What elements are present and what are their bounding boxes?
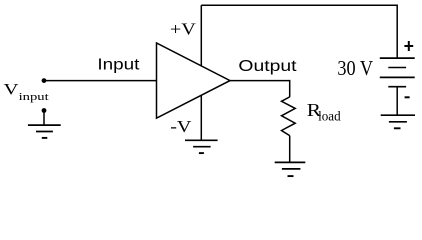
label battery + terminal — [404, 41, 413, 51]
label +V — [170, 20, 197, 38]
ground (battery negative) — [381, 115, 415, 128]
wire battery negative lead — [396, 87, 398, 116]
wire input (Vinput node to op-amp input) — [44, 80, 157, 82]
wire -V supply (op-amp bottom to ground) — [200, 95, 202, 140]
svg-text:load: load — [318, 108, 341, 123]
label Rload — [307, 102, 341, 124]
svg-text:input: input — [19, 90, 50, 103]
wire battery positive lead — [396, 5, 398, 59]
ground (below Rload) — [275, 162, 306, 176]
node Vinput return (ground terminal dot) — [42, 108, 47, 113]
svg-text:Input: Input — [97, 55, 139, 73]
wire top supply rail — [201, 4, 397, 6]
wire +V supply (vertical into op-amp top) — [200, 5, 202, 66]
label Output — [238, 57, 296, 75]
node Vinput (input node dot) — [42, 78, 47, 83]
label -V — [170, 117, 192, 135]
label Input — [97, 55, 139, 73]
svg-text:+V: +V — [170, 20, 197, 38]
wire Vinput ground stem — [43, 111, 45, 126]
label 30 V — [337, 57, 373, 80]
battery 30 V — [380, 58, 415, 87]
svg-text:30 V: 30 V — [337, 57, 373, 80]
ground (op-amp -V) — [185, 140, 218, 153]
svg-text:V: V — [4, 81, 20, 99]
ground (below Vinput) — [28, 125, 61, 138]
wire output horizontal — [230, 80, 290, 82]
op-amp U1 — [157, 43, 231, 118]
svg-text:Output: Output — [238, 57, 296, 75]
label battery - terminal — [405, 96, 410, 98]
wire Rload to ground — [289, 136, 291, 163]
svg-text:-V: -V — [170, 117, 192, 135]
wire output vertical (down to Rload) — [289, 80, 291, 97]
label Vinput — [4, 81, 50, 103]
resistor Rload — [282, 97, 296, 136]
